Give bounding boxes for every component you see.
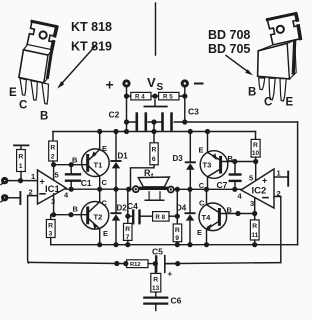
wire rail corner into R10 bbox=[255, 132, 257, 140]
svg-text:R: R bbox=[152, 147, 157, 154]
svg-text:B: B bbox=[73, 205, 79, 214]
ground tap at R4/R5 midpoint bbox=[144, 100, 166, 107]
pointer arrow from BD705 label to right package bbox=[226, 56, 253, 76]
svg-text:R 5: R 5 bbox=[163, 94, 173, 101]
node C7 top tap bbox=[232, 159, 237, 164]
wire capacitor line (minus feed) C2/C3 row bbox=[127, 121, 185, 123]
svg-text:B: B bbox=[40, 111, 48, 123]
node R8/R9 junction bbox=[175, 214, 180, 219]
wire R12 to C5 bbox=[148, 263, 155, 265]
svg-text:T1: T1 bbox=[94, 161, 103, 170]
node D3/D4 on output bbox=[187, 187, 192, 192]
node R13 top bbox=[153, 261, 158, 266]
svg-text:C: C bbox=[199, 181, 205, 190]
svg-text:C: C bbox=[102, 178, 108, 187]
svg-text:R: R bbox=[125, 226, 130, 233]
input terminal 1 bbox=[1, 177, 8, 185]
node on feedback line bbox=[114, 261, 119, 266]
svg-text:R: R bbox=[48, 223, 53, 230]
wire output line right segment bbox=[175, 188, 242, 190]
svg-text:R: R bbox=[175, 227, 180, 234]
label Vs bbox=[147, 75, 164, 93]
node T4 emitter on rail bbox=[204, 242, 209, 247]
wire IC1 pin3 stub bbox=[53, 194, 55, 215]
node plus at R4 bbox=[124, 94, 129, 99]
wire T4 collector to output line bbox=[206, 189, 208, 204]
resistor R9 bbox=[173, 216, 182, 245]
node minus on cap line bbox=[182, 119, 187, 124]
wire IC2 pin3 stub bbox=[254, 198, 256, 214]
svg-text:C: C bbox=[264, 97, 272, 109]
input coupling capacitor plate bbox=[19, 192, 21, 204]
wire T3 emitter to top rail bbox=[207, 132, 209, 153]
node plus on cap line bbox=[124, 119, 129, 124]
node IC2 pin3/R11 bbox=[252, 211, 257, 216]
node C1 bottom on output bbox=[69, 187, 74, 192]
wire top supply rail bbox=[53, 131, 256, 133]
resistor R4 bbox=[131, 92, 151, 100]
svg-text:5: 5 bbox=[55, 171, 59, 180]
node T2 emitter on rail bbox=[97, 242, 102, 247]
svg-text:E: E bbox=[103, 229, 108, 238]
svg-text:1: 1 bbox=[277, 169, 281, 178]
node D1 on rail bbox=[113, 129, 118, 134]
output terminal right bbox=[167, 186, 175, 194]
IC2 pin1 terminator bar bbox=[287, 172, 289, 186]
wire T4 emitter to bottom rail bbox=[206, 229, 208, 245]
svg-text:R 8: R 8 bbox=[155, 214, 165, 221]
svg-text:R12: R12 bbox=[130, 262, 141, 268]
wire input1 to IC1 pin1 bbox=[8, 180, 38, 182]
transistor T3 bbox=[200, 151, 228, 179]
capacitor C1 bbox=[66, 165, 80, 190]
svg-text:IC2: IC2 bbox=[252, 186, 267, 197]
chassis bar above R1 bbox=[14, 145, 29, 149]
svg-text:D2: D2 bbox=[117, 204, 128, 213]
node plus on top rail bbox=[124, 129, 129, 134]
node at R12 left bbox=[123, 261, 128, 266]
wire IC1 pin2 feedback down-left bbox=[28, 196, 38, 263]
node R6 on top rail bbox=[151, 129, 156, 134]
svg-text:D4: D4 bbox=[176, 204, 187, 213]
node T3 emitter on rail bbox=[205, 129, 210, 134]
svg-text:T2: T2 bbox=[94, 213, 103, 222]
supply terminal minus bbox=[181, 79, 189, 87]
node D1/D2 on output bbox=[113, 187, 118, 192]
wire R6 bottom L-bend to output line bbox=[131, 165, 155, 189]
wire IC1 pin5 stub bbox=[53, 165, 55, 181]
node C7 bottom on output bbox=[232, 187, 237, 192]
svg-text:E: E bbox=[199, 146, 204, 155]
wire T3 collector to output line bbox=[207, 177, 209, 190]
transistor T2 bbox=[81, 202, 109, 230]
svg-text:3: 3 bbox=[250, 199, 254, 208]
diode D4 bbox=[185, 189, 194, 244]
svg-text:10: 10 bbox=[252, 150, 260, 157]
wire bottom rail bbox=[51, 244, 298, 246]
node IC1 pin5/R2 bbox=[51, 162, 56, 167]
svg-text:C7: C7 bbox=[217, 180, 228, 190]
node cap midpoint bbox=[151, 119, 156, 124]
node R8/R9 tap on output bbox=[175, 187, 180, 192]
transistor package BD708/BD705 (TO-220 drawing top-right) bbox=[258, 14, 301, 101]
node C4/R7 junction bbox=[125, 214, 130, 219]
wire C4/R7 tap down from output line bbox=[127, 189, 129, 216]
capacitor C3 bbox=[163, 114, 172, 130]
svg-text:T3: T3 bbox=[203, 161, 212, 170]
svg-text:C6: C6 bbox=[171, 296, 182, 306]
svg-text:C1: C1 bbox=[81, 178, 92, 188]
svg-text:R: R bbox=[153, 277, 158, 284]
resistor R3 bbox=[46, 215, 55, 245]
svg-text:D3: D3 bbox=[173, 154, 184, 163]
label Rt bbox=[144, 168, 154, 180]
input terminal 2 bbox=[1, 194, 8, 202]
wire T2 collector to output line bbox=[99, 189, 101, 202]
capacitor C4 bbox=[128, 211, 153, 224]
wire IC2 pin2 feedback down bbox=[274, 197, 281, 263]
node R4/R5 midpoint bbox=[152, 94, 157, 99]
wire center column C2/C3 midpoint down to R6 bbox=[153, 122, 155, 143]
resistor R13 bbox=[151, 264, 161, 292]
wire T1 emitter to top rail bbox=[99, 132, 101, 150]
diode D3 bbox=[186, 132, 195, 190]
wire R10 bottom to pin5 node bbox=[255, 157, 257, 161]
svg-text:E: E bbox=[102, 144, 107, 153]
capacitor C5 polarized bbox=[156, 256, 178, 273]
wire feedback line right portion bbox=[166, 263, 281, 264]
transistor T1 bbox=[82, 149, 110, 177]
diode D1 bbox=[111, 132, 120, 190]
wire T3 base line to R10 node bbox=[221, 161, 256, 163]
svg-text:+: + bbox=[262, 176, 267, 186]
wire output line left segment bbox=[66, 188, 132, 190]
svg-text:C: C bbox=[19, 100, 27, 112]
svg-text:KT 819: KT 819 bbox=[71, 40, 112, 54]
node on pin3 line bbox=[68, 212, 73, 217]
svg-text:E: E bbox=[286, 97, 294, 109]
svg-text:V: V bbox=[147, 75, 156, 90]
node D4 on rail bbox=[187, 242, 192, 247]
resistor R5 bbox=[159, 92, 179, 100]
svg-text:+: + bbox=[106, 77, 114, 93]
node on pin3 line right bbox=[235, 211, 240, 216]
svg-text:E: E bbox=[9, 87, 17, 99]
svg-text:S: S bbox=[157, 82, 164, 93]
svg-text:R 4: R 4 bbox=[135, 94, 145, 101]
node minus at R5 bbox=[182, 94, 187, 99]
capacitor C6 bbox=[144, 292, 167, 311]
svg-text:6: 6 bbox=[152, 156, 156, 163]
svg-text:+: + bbox=[40, 177, 45, 187]
svg-text:C: C bbox=[199, 199, 205, 208]
resistor R10 bbox=[251, 139, 260, 157]
minus sign of supply bbox=[195, 83, 203, 85]
wire minus column bbox=[184, 88, 186, 122]
resistor R1 bbox=[17, 150, 26, 172]
node R11 on rail bbox=[252, 242, 257, 247]
op-amp IC1 bbox=[38, 170, 67, 204]
wire R1 to input node bbox=[20, 172, 22, 181]
svg-text:1: 1 bbox=[19, 163, 23, 170]
capacitor C2 bbox=[137, 114, 146, 130]
resistor R12 bbox=[127, 260, 148, 268]
wire T2 emitter to bottom rail bbox=[99, 229, 101, 245]
svg-text:R: R bbox=[252, 223, 257, 230]
svg-text:3: 3 bbox=[49, 231, 53, 238]
svg-text:+: + bbox=[168, 270, 173, 279]
svg-text:E: E bbox=[197, 228, 202, 237]
svg-text:C4: C4 bbox=[127, 201, 138, 211]
wire IC2 pin5 stub bbox=[255, 162, 257, 181]
node T1/T2 collectors bbox=[97, 187, 102, 192]
transistor package KT818/KT819 (TO-220 drawing top-left) bbox=[19, 21, 57, 104]
resistor R2 bbox=[49, 141, 58, 161]
svg-text:R: R bbox=[144, 168, 151, 178]
capacitor C7 bbox=[230, 162, 241, 190]
resistor R8 bbox=[153, 212, 169, 222]
svg-text:R: R bbox=[50, 145, 55, 152]
wire input2 to coupling plate bbox=[8, 197, 20, 199]
node R1/input1 junction bbox=[18, 178, 23, 183]
svg-text:D1: D1 bbox=[118, 152, 129, 161]
wire junction up to output line bbox=[176, 189, 178, 216]
node R7 on rail bbox=[125, 242, 130, 247]
svg-text:B: B bbox=[248, 87, 256, 99]
svg-text:BD 705: BD 705 bbox=[208, 42, 250, 56]
speaker Rt magnet box bbox=[145, 192, 164, 201]
node C5 right lead bbox=[175, 261, 180, 266]
svg-text:C2: C2 bbox=[109, 110, 120, 120]
svg-text:IC1: IC1 bbox=[45, 184, 61, 195]
resistor R7 bbox=[124, 216, 133, 245]
svg-text:T4: T4 bbox=[202, 213, 212, 222]
node D3 on rail bbox=[188, 129, 193, 134]
node C4/R7 tap on output bbox=[126, 187, 131, 192]
svg-text:13: 13 bbox=[152, 285, 160, 292]
wire pin3 line to T4 base bbox=[219, 213, 254, 215]
supply stub line above Vs bbox=[155, 3, 157, 55]
wire R8 right to junction bbox=[169, 215, 177, 217]
svg-text:5: 5 bbox=[249, 174, 253, 183]
wire right border vertical bbox=[297, 122, 299, 245]
node C1 top tap bbox=[69, 162, 74, 167]
node IC2 pin5/R10 bbox=[253, 159, 258, 164]
wire plus column bbox=[126, 88, 128, 132]
wire T1 collector to output line bbox=[99, 176, 101, 189]
svg-text:R: R bbox=[253, 142, 258, 149]
op-amp IC2 bbox=[241, 169, 274, 208]
svg-text:9: 9 bbox=[175, 235, 179, 242]
svg-text:C5: C5 bbox=[152, 247, 163, 257]
svg-text:R: R bbox=[18, 154, 23, 161]
wire IC2 pin1 to terminator bbox=[274, 176, 288, 178]
resistor R6 bbox=[150, 143, 158, 165]
wire between R4 and R5 bbox=[127, 95, 185, 97]
speaker Rt diaphragm thick bar bbox=[141, 187, 167, 190]
transistor T4 bbox=[199, 203, 227, 231]
node IC1 pin3/R3 bbox=[51, 212, 56, 217]
pointer arrow from KT819 label to left package bbox=[57, 45, 96, 89]
node D2 on rail bbox=[113, 242, 118, 247]
svg-text:C: C bbox=[102, 199, 108, 208]
svg-text:BD 708: BD 708 bbox=[208, 28, 250, 42]
svg-text:C3: C3 bbox=[188, 107, 199, 117]
svg-text:1: 1 bbox=[31, 172, 35, 181]
svg-text:KT 818: KT 818 bbox=[71, 20, 112, 34]
wire pin3 line to T2 base bbox=[51, 214, 88, 216]
node R9 on rail bbox=[175, 242, 180, 247]
output terminal left bbox=[132, 185, 140, 193]
wire feedback bottom line to R12 bbox=[28, 262, 127, 263]
svg-text:11: 11 bbox=[251, 232, 258, 239]
node T1 emitter on rail bbox=[97, 129, 102, 134]
wire R2 bottom to T1 base bbox=[53, 161, 88, 165]
node T3/T4 collectors bbox=[204, 187, 209, 192]
svg-text:2: 2 bbox=[51, 154, 55, 161]
speaker Rt cone bbox=[138, 177, 169, 187]
wire R2 top from rail bbox=[52, 132, 54, 142]
resistor R11 bbox=[250, 214, 259, 245]
supply terminal plus bbox=[122, 79, 130, 87]
wire minus line to right border bbox=[185, 121, 298, 123]
diode D2 bbox=[111, 189, 120, 245]
